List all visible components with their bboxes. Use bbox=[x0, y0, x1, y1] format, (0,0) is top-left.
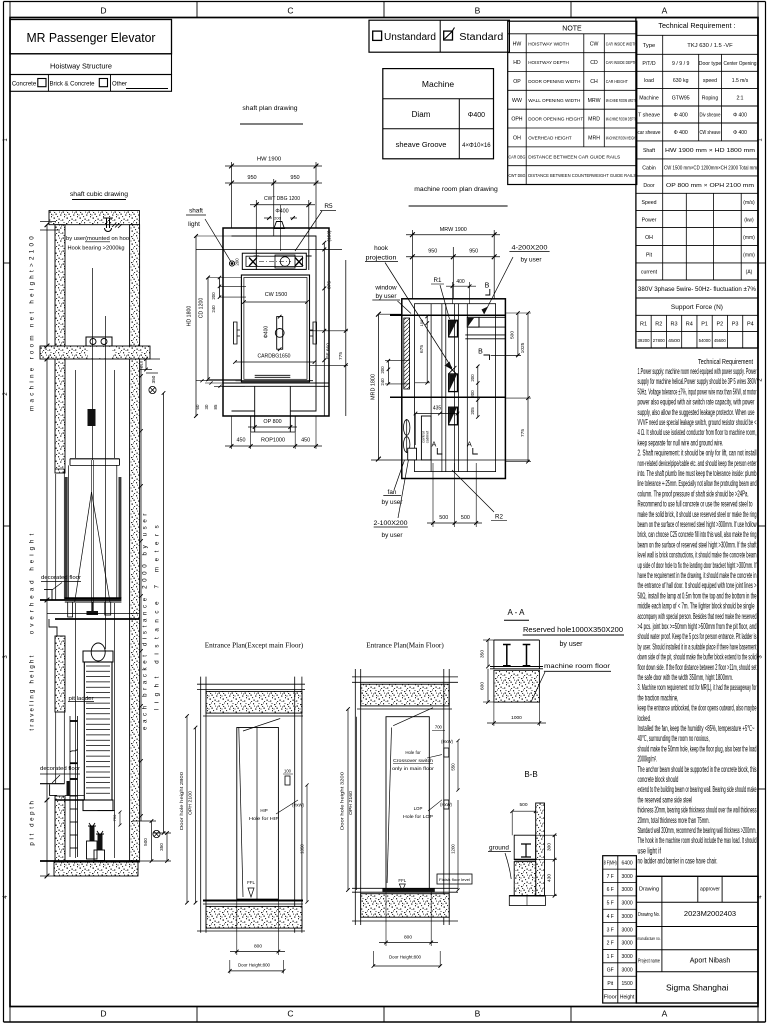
unstandard standard selection box bbox=[369, 20, 509, 52]
svg-text:MRW 1900: MRW 1900 bbox=[440, 227, 467, 233]
svg-text:A: A bbox=[662, 1009, 668, 1019]
svg-text:Drawing No.: Drawing No. bbox=[638, 912, 660, 918]
svg-text:1000: 1000 bbox=[511, 715, 522, 721]
dimension 200 200 205 bbox=[477, 366, 479, 417]
svg-text:locked.: locked. bbox=[638, 714, 652, 723]
svg-text:NOTE: NOTE bbox=[562, 26, 582, 33]
dimension 775 plan bbox=[345, 260, 347, 416]
svg-text:extend to the building beam or: extend to the building beam or bearing w… bbox=[638, 785, 757, 794]
svg-text:machine room plan drawing: machine room plan drawing bbox=[414, 186, 498, 193]
entrance1 bottom concrete bbox=[206, 906, 302, 928]
svg-text:950: 950 bbox=[469, 249, 478, 255]
svg-text:keep the entrance unblocked, t: keep the entrance unblocked, the door op… bbox=[638, 704, 757, 713]
entrance2 jamb holes bbox=[444, 748, 449, 757]
svg-text:750: 750 bbox=[112, 814, 117, 821]
svg-text:by user: by user bbox=[521, 257, 543, 264]
shaft projection lines bbox=[390, 314, 505, 316]
svg-text:Door hole height 2800: Door hole height 2800 bbox=[179, 771, 184, 830]
svg-text:Finish floor level: Finish floor level bbox=[439, 877, 470, 882]
svg-text:54000: 54000 bbox=[699, 338, 712, 343]
svg-text:TKJ 630 / 1.5 -VF: TKJ 630 / 1.5 -VF bbox=[687, 43, 733, 49]
window opening in wall bbox=[404, 318, 410, 389]
svg-text:3000: 3000 bbox=[622, 874, 633, 880]
svg-text:window: window bbox=[374, 285, 397, 292]
svg-text:shaft cubic drawing: shaft cubic drawing bbox=[70, 191, 128, 198]
svg-text:by user: by user bbox=[560, 641, 584, 648]
svg-text:by user(mounted on hook): by user(mounted on hook) bbox=[66, 236, 134, 242]
svg-text:Support Force (N): Support Force (N) bbox=[671, 304, 723, 311]
svg-text:(150): (150) bbox=[327, 230, 333, 242]
svg-text:CW: CW bbox=[590, 41, 599, 47]
floor height table bbox=[603, 856, 637, 1003]
svg-text:pit ladder: pit ladder bbox=[69, 696, 94, 702]
left wall door frame lines lower landing bbox=[55, 712, 57, 784]
svg-text:HW 1900: HW 1900 bbox=[257, 157, 281, 163]
svg-text:39200: 39200 bbox=[638, 338, 651, 343]
reserved hole 200x200 top right bbox=[467, 317, 479, 327]
svg-text:the reserved same side steel: the reserved same side steel bbox=[638, 795, 693, 804]
svg-text:6400: 6400 bbox=[622, 860, 633, 866]
svg-text:light: light bbox=[188, 221, 200, 228]
plan right dimension chain bbox=[196, 248, 342, 250]
pit ladder bbox=[69, 716, 71, 857]
BB wall bbox=[536, 803, 545, 896]
lower landing decorated floor step bbox=[50, 784, 58, 795]
top landing decorated floor step bbox=[44, 590, 65, 600]
svg-text:Door Height:800: Door Height:800 bbox=[389, 955, 422, 960]
svg-text:should make the 50mm hole, kee: should make the 50mm hole, keep the floo… bbox=[638, 744, 757, 753]
technical requirement table bbox=[636, 18, 758, 348]
svg-text:CW 1500 mm×CD 1200mm×CH 2300 T: CW 1500 mm×CD 1200mm×CH 2300 Total mm bbox=[664, 166, 757, 172]
svg-text:thickness 20mm, bearing side t: thickness 20mm, bearing side thickness s… bbox=[638, 806, 757, 815]
svg-text:1025: 1025 bbox=[520, 342, 526, 353]
car rope double line bbox=[91, 460, 93, 611]
dimension 450 ROP1000 450 bbox=[231, 416, 233, 449]
svg-text:A: A bbox=[467, 442, 472, 449]
machine room net height dimension bbox=[46, 225, 48, 346]
svg-text:floor down side. If the floor: floor down side. If the floor distance b… bbox=[638, 663, 757, 672]
svg-text:Shaft: Shaft bbox=[643, 148, 656, 154]
svg-text:R1: R1 bbox=[434, 277, 442, 284]
AA dim 600 bbox=[487, 669, 489, 702]
svg-text:CARDBG1650: CARDBG1650 bbox=[258, 354, 291, 360]
technical requirement notes text bbox=[638, 357, 757, 866]
svg-text:The anchor beam should be supp: The anchor beam should be supported in t… bbox=[638, 765, 757, 774]
svg-text:overhead height: overhead height bbox=[29, 530, 36, 634]
svg-text:GTW95: GTW95 bbox=[672, 96, 690, 102]
svg-text:4 F: 4 F bbox=[607, 914, 614, 920]
hoisting ropes bbox=[92, 268, 94, 460]
svg-text:240: 240 bbox=[380, 378, 385, 386]
svg-text:VVVF need use special leakage: VVVF need use special leakage switch, gr… bbox=[638, 418, 757, 427]
svg-text:350: 350 bbox=[159, 843, 164, 851]
svg-text:Brick & Concrete: Brick & Concrete bbox=[49, 82, 95, 88]
svg-text:Hole for HIP: Hole for HIP bbox=[249, 816, 279, 821]
entrance2 top lintel concrete bbox=[361, 684, 450, 706]
door jambs plan bbox=[254, 386, 256, 432]
hoistway structure row bbox=[10, 54, 172, 75]
rope hole 1 bbox=[449, 320, 458, 337]
svg-text:Type: Type bbox=[643, 43, 656, 49]
svg-text:800: 800 bbox=[404, 935, 412, 941]
svg-text:Door type: Door type bbox=[699, 61, 722, 67]
car sheave plan bbox=[277, 317, 283, 350]
svg-text:WW: WW bbox=[512, 98, 522, 104]
main title box MR Passenger Elevator bbox=[10, 20, 172, 54]
svg-text:240: 240 bbox=[211, 305, 216, 313]
svg-text:the entrance of hall door. It: the entrance of hall door. It should equ… bbox=[638, 581, 757, 590]
AA I-beam 1 bbox=[503, 645, 511, 666]
svg-text:Project name: Project name bbox=[638, 959, 660, 965]
svg-text:non-related device/pipe/cable: non-related device/pipe/cable etc. and s… bbox=[638, 459, 757, 468]
svg-text:EE 660: EE 660 bbox=[326, 343, 332, 359]
svg-text:current: current bbox=[641, 270, 658, 276]
svg-text:middle each lamp of < 7m. The: middle each lamp of < 7m. The lighter bl… bbox=[638, 602, 755, 611]
svg-text:CW sheave: CW sheave bbox=[700, 130, 721, 136]
dimension HD 1800 bbox=[195, 236, 197, 416]
svg-text:Hole for LOP: Hole for LOP bbox=[403, 814, 433, 819]
svg-text:A: A bbox=[432, 442, 437, 449]
dimension 350 bottom and light symbol bbox=[166, 833, 168, 861]
entrance1 sill lines bbox=[203, 900, 303, 902]
svg-text:ROP1000: ROP1000 bbox=[261, 438, 285, 444]
svg-text:accompany with special person.: accompany with special person. Besides t… bbox=[638, 612, 757, 621]
svg-text:B: B bbox=[475, 6, 481, 16]
dimension MRW 1900 bbox=[411, 230, 413, 299]
svg-text:R2: R2 bbox=[495, 514, 503, 521]
entrance1 door hole height dim bbox=[186, 716, 188, 903]
hook on slab bbox=[103, 217, 113, 219]
each bracket distance dimension bbox=[140, 365, 142, 821]
svg-text:(mm): (mm) bbox=[743, 235, 755, 241]
lower landing floor line bbox=[40, 783, 65, 785]
top landing floor line bbox=[40, 599, 121, 601]
svg-text:CWT DBG: CWT DBG bbox=[508, 173, 525, 179]
svg-text:Technical Requirement: Technical Requirement bbox=[698, 357, 754, 366]
wall duct notch bbox=[408, 448, 417, 460]
svg-text:HD 1800: HD 1800 bbox=[187, 306, 193, 327]
svg-text:675: 675 bbox=[419, 345, 425, 353]
svg-text:shaft plan drawing: shaft plan drawing bbox=[242, 105, 297, 112]
svg-text:CAR INSIDE DEPTH: CAR INSIDE DEPTH bbox=[606, 60, 637, 66]
top landing fascia step bbox=[49, 619, 57, 636]
ventilation fan symbols bbox=[404, 420, 410, 436]
svg-text:beam on the surface of reserve: beam on the surface of reserved steel hi… bbox=[638, 540, 757, 549]
svg-text:supply for machine helical.Pow: supply for machine helical.Power supply … bbox=[638, 377, 757, 386]
frame column ticks top bbox=[196, 2, 198, 18]
BB box with beam bbox=[514, 835, 536, 859]
svg-text:OVERHEAD HEIGHT: OVERHEAD HEIGHT bbox=[528, 135, 572, 141]
svg-text:875: 875 bbox=[327, 281, 333, 289]
svg-text:CAR INSIDE WIDTH: CAR INSIDE WIDTH bbox=[606, 41, 637, 47]
svg-text:sheave Groove: sheave Groove bbox=[396, 140, 447, 149]
svg-text:Φ 400: Φ 400 bbox=[674, 130, 688, 136]
svg-text:Φ400: Φ400 bbox=[468, 112, 485, 119]
svg-text:Cabin: Cabin bbox=[642, 166, 656, 172]
svg-text:Unstandard: Unstandard bbox=[384, 32, 436, 43]
counterweight bbox=[84, 662, 112, 800]
machine room inner walls bbox=[415, 304, 496, 472]
shaft left wall mid bbox=[55, 636, 65, 712]
svg-text:2:1: 2:1 bbox=[737, 96, 744, 102]
svg-text:fan: fan bbox=[388, 489, 397, 496]
svg-text:Crossover switch: Crossover switch bbox=[393, 758, 434, 763]
BB footing bbox=[509, 895, 545, 897]
svg-text:500: 500 bbox=[143, 838, 148, 846]
shaft light symbol bbox=[229, 261, 234, 266]
svg-text:R3: R3 bbox=[671, 322, 678, 328]
svg-text:Power: Power bbox=[642, 217, 657, 223]
svg-text:D: D bbox=[100, 1009, 106, 1019]
svg-text:450: 450 bbox=[301, 438, 310, 444]
svg-text:950: 950 bbox=[290, 175, 299, 181]
svg-text:350: 350 bbox=[151, 375, 156, 383]
svg-text:P/T/D: P/T/D bbox=[642, 61, 656, 67]
svg-text:Height: Height bbox=[620, 994, 635, 1000]
svg-text:Standard: Standard bbox=[459, 32, 503, 43]
svg-text:50Ω, install the lamp at 0.5m: 50Ω, install the lamp at 0.5m from the t… bbox=[638, 591, 757, 600]
svg-text:OPH: OPH bbox=[511, 117, 522, 123]
svg-text:(m/s): (m/s) bbox=[743, 200, 755, 206]
landing sill plan bbox=[236, 380, 313, 382]
rope hitch bbox=[88, 409, 96, 426]
svg-text:C: C bbox=[287, 1009, 293, 1019]
svg-text:27800: 27800 bbox=[653, 338, 666, 343]
svg-text:Φ400: Φ400 bbox=[275, 209, 288, 215]
svg-text:WALL OPENING WIDTH: WALL OPENING WIDTH bbox=[528, 98, 581, 104]
svg-text:3 F: 3 F bbox=[607, 927, 614, 933]
entrance1 door hole bbox=[237, 728, 279, 900]
svg-text:350: 350 bbox=[480, 650, 486, 658]
entrance2 jamb verticals bbox=[354, 669, 356, 925]
entrance2 bottom concrete bbox=[361, 894, 450, 918]
svg-text:MR Passenger Elevator: MR Passenger Elevator bbox=[27, 30, 157, 45]
svg-text:>4 pcs. joint box >=50mm hight: >4 pcs. joint box >=50mm hight >500mm fr… bbox=[638, 622, 757, 631]
section AA structure bbox=[493, 640, 495, 669]
dimension OP 800 bbox=[254, 416, 256, 430]
dimension 500 500 bottom bbox=[432, 463, 434, 527]
dimension 200 240 machine room bbox=[387, 361, 389, 384]
svg-text:450: 450 bbox=[237, 438, 246, 444]
svg-text:Other: Other bbox=[112, 82, 127, 88]
dimension 675 bbox=[426, 316, 428, 382]
svg-text:2-100X200: 2-100X200 bbox=[374, 520, 408, 527]
svg-text:car sheave: car sheave bbox=[638, 130, 661, 136]
svg-text:CD: CD bbox=[590, 60, 598, 66]
traction machine on floor bbox=[86, 337, 112, 346]
svg-text:Div sheave: Div sheave bbox=[700, 113, 721, 119]
svg-text:4-200X200: 4-200X200 bbox=[512, 245, 548, 252]
svg-text:MRH: MRH bbox=[588, 135, 600, 141]
svg-text:into. The shaft plumb line mus: into. The shaft plumb line must keep the… bbox=[638, 469, 757, 478]
unstandard checkbox bbox=[373, 31, 382, 40]
svg-text:630 kg: 630 kg bbox=[673, 78, 689, 84]
svg-text:1 F: 1 F bbox=[607, 954, 614, 960]
dimension 500 bottom bbox=[151, 821, 153, 861]
svg-text:300: 300 bbox=[547, 843, 553, 851]
svg-text:3000: 3000 bbox=[622, 954, 633, 960]
svg-text:column. The proof pressure of: column. The proof pressure of shaft side… bbox=[638, 489, 749, 498]
svg-text:Center Opening: Center Opening bbox=[724, 61, 757, 67]
dimension 1025 775 right bbox=[527, 313, 529, 462]
svg-text:LOP: LOP bbox=[414, 806, 423, 811]
svg-text:no ladder and barrier in case: no ladder and barrier in case have chair… bbox=[638, 857, 718, 866]
svg-text:775: 775 bbox=[338, 352, 344, 360]
svg-text:500: 500 bbox=[510, 331, 516, 339]
AA concrete block bbox=[494, 670, 540, 702]
svg-text:CAR DBG: CAR DBG bbox=[508, 154, 525, 160]
svg-text:Concrete: Concrete bbox=[12, 82, 37, 88]
svg-text:MACHINE ROOM DEPTH: MACHINE ROOM DEPTH bbox=[606, 117, 637, 123]
svg-text:CAR HEIGHT: CAR HEIGHT bbox=[606, 79, 628, 85]
svg-text:brick, can choose C25 concrete: brick, can choose C25 concrete fill into… bbox=[638, 530, 757, 539]
page frame outer border bbox=[4, 1, 766, 3]
svg-text:MRD 1800: MRD 1800 bbox=[370, 374, 376, 400]
svg-text:550: 550 bbox=[451, 763, 456, 771]
support beam lines right bbox=[465, 334, 505, 336]
svg-text:B: B bbox=[485, 283, 490, 290]
entrance2 1350 dim bbox=[457, 800, 459, 890]
svg-text:500: 500 bbox=[519, 802, 527, 808]
traveling height dimension bbox=[46, 600, 48, 800]
svg-text:make the solid brick, it shoul: make the solid brick, it should use rese… bbox=[638, 510, 757, 519]
svg-text:Door Height:800: Door Height:800 bbox=[238, 963, 271, 968]
svg-text:Recommend to use full concrete: Recommend to use full concrete or use th… bbox=[638, 500, 753, 509]
dimension CWT DBG 1200 bbox=[255, 200, 257, 253]
svg-text:Installed the fan, keep the hu: Installed the fan, keep the humidity <85… bbox=[638, 724, 755, 733]
svg-text:P4: P4 bbox=[747, 322, 754, 328]
shaft plan outer walls bbox=[223, 228, 329, 416]
svg-text:800: 800 bbox=[254, 944, 262, 950]
svg-text:435: 435 bbox=[433, 406, 442, 412]
svg-text:CD 1200: CD 1200 bbox=[199, 298, 205, 319]
svg-text:each bracket distance 2000 by: each bracket distance 2000 by user bbox=[142, 510, 149, 730]
svg-text:B-B: B-B bbox=[524, 770, 537, 779]
rope hitch under car bbox=[87, 611, 99, 615]
svg-text:Φ 400: Φ 400 bbox=[674, 113, 688, 119]
dimension 210 top bbox=[140, 358, 160, 360]
counterweight buffer bbox=[98, 834, 103, 850]
svg-text:P3: P3 bbox=[732, 322, 739, 328]
svg-text:3000: 3000 bbox=[622, 887, 633, 893]
svg-text:1500: 1500 bbox=[622, 981, 633, 987]
svg-text:power also equiped with air sw: power also equiped with air switch rate … bbox=[638, 398, 755, 407]
svg-text:only in main floor: only in main floor bbox=[392, 766, 435, 771]
counterweight assembly plan bbox=[242, 253, 306, 269]
svg-text:2000kg/m².: 2000kg/m². bbox=[638, 755, 658, 764]
svg-text:Machine: Machine bbox=[639, 96, 659, 102]
svg-text:decorated floor: decorated floor bbox=[40, 766, 80, 772]
svg-text:700: 700 bbox=[435, 725, 443, 730]
svg-text:ground: ground bbox=[489, 845, 509, 852]
left wall door frame lines upper landing bbox=[55, 474, 57, 600]
svg-text:projection: projection bbox=[366, 255, 397, 262]
svg-text:the safe door with the width 3: the safe door with the width 350mm, high… bbox=[638, 673, 734, 682]
svg-text:OH: OH bbox=[645, 235, 653, 241]
svg-text:2. Shaft requirement: it shoul: 2. Shaft requirement: it should be only … bbox=[638, 449, 757, 458]
svg-text:DISTANCE BETWEEN COUNTERWEIGHT: DISTANCE BETWEEN COUNTERWEIGHT GUIDE RAI… bbox=[528, 173, 636, 179]
svg-text:T sheave: T sheave bbox=[638, 113, 660, 119]
svg-text:380V 3phase 5wire- 50Hz- fluct: 380V 3phase 5wire- 50Hz- fluctuation ±7% bbox=[638, 287, 757, 293]
shaft right wall bbox=[130, 359, 140, 862]
svg-text:DOOR OPENING HEIGHT: DOOR OPENING HEIGHT bbox=[528, 117, 583, 123]
pit depth dimension bbox=[46, 800, 48, 876]
svg-text:pit depth: pit depth bbox=[29, 798, 36, 845]
svg-text:Entrance Plan(Main Floor): Entrance Plan(Main Floor) bbox=[366, 642, 444, 650]
elevator car bbox=[70, 458, 120, 460]
svg-text:6 F: 6 F bbox=[607, 887, 614, 893]
svg-text:3000: 3000 bbox=[622, 968, 633, 974]
svg-text:500: 500 bbox=[461, 515, 470, 521]
svg-text:speed: speed bbox=[703, 78, 717, 84]
hoistway structure checkbox row bbox=[10, 75, 172, 92]
svg-text:Machine: Machine bbox=[422, 79, 454, 89]
shaft plan inner walls bbox=[232, 236, 317, 411]
dimension 400 beams bbox=[451, 282, 453, 304]
dimension MRD 1800 bbox=[377, 314, 379, 459]
svg-text:CW 1500: CW 1500 bbox=[265, 292, 287, 298]
svg-text:OP: OP bbox=[513, 79, 521, 85]
svg-text:by user. Should installed it i: by user. Should installed it in a suitab… bbox=[638, 642, 757, 651]
svg-text:keep separate for null wire an: keep separate for null wire and ground w… bbox=[638, 438, 724, 447]
svg-text:FFL: FFL bbox=[247, 880, 255, 885]
svg-text:Hole for: Hole for bbox=[405, 750, 421, 755]
machine beams bbox=[430, 304, 432, 472]
entrance2 550 dim bbox=[457, 741, 459, 791]
svg-text:A - A: A - A bbox=[508, 608, 526, 617]
frame row ticks right bbox=[758, 262, 766, 264]
svg-text:P1: P1 bbox=[701, 322, 708, 328]
svg-text:(HxW): (HxW) bbox=[440, 802, 452, 807]
frame row ticks left bbox=[4, 262, 11, 264]
svg-text:The hook in the machine room s: The hook in the machine room should incl… bbox=[638, 836, 757, 845]
svg-text:shaft: shaft bbox=[189, 208, 203, 215]
entrance2 finish floor level box bbox=[437, 874, 472, 884]
svg-text:3000: 3000 bbox=[622, 914, 633, 920]
svg-text:4 Ω. It should use isolated co: 4 Ω. It should use isolated conductor fr… bbox=[638, 428, 757, 437]
svg-text:3000: 3000 bbox=[622, 941, 633, 947]
svg-text:3000: 3000 bbox=[622, 901, 633, 907]
svg-text:400: 400 bbox=[456, 279, 465, 285]
svg-text:OP 800: OP 800 bbox=[263, 419, 281, 425]
svg-text:4×Φ10×16: 4×Φ10×16 bbox=[462, 143, 491, 149]
svg-text:should water proof. Keep the 5: should water proof. Keep the 5 pcs for p… bbox=[638, 632, 757, 641]
svg-text:manufacture no.: manufacture no. bbox=[638, 936, 661, 941]
svg-text:Pit: Pit bbox=[646, 252, 653, 258]
shaft left wall upper bbox=[55, 359, 65, 473]
svg-text:beam on the surface of reserve: beam on the surface of reserved steel hi… bbox=[638, 520, 757, 529]
svg-text:Pit: Pit bbox=[607, 981, 613, 987]
drawing title block bbox=[636, 876, 758, 1003]
svg-text:HOISTWAY DEPTH: HOISTWAY DEPTH bbox=[528, 60, 569, 66]
BB concrete block bbox=[514, 862, 536, 896]
AA dim 350 bbox=[487, 640, 489, 667]
svg-text:30: 30 bbox=[204, 404, 209, 409]
svg-text:(mm): (mm) bbox=[743, 252, 755, 258]
svg-text:cabinet: cabinet bbox=[425, 430, 430, 443]
svg-text:machine room floor: machine room floor bbox=[544, 663, 611, 670]
svg-text:OP 800 mm × OPH 2100: OP 800 mm × OPH 2100 mm bbox=[666, 183, 754, 189]
machine room floor slab bbox=[40, 346, 150, 359]
counterweight sheave bbox=[91, 643, 105, 661]
svg-text:100: 100 bbox=[284, 769, 292, 774]
svg-text:supply, also allow the suggest: supply, also allow the suggested leakage… bbox=[638, 408, 755, 417]
machine table bbox=[383, 69, 494, 159]
svg-text:(HxW): (HxW) bbox=[441, 739, 453, 744]
svg-text:2 F: 2 F bbox=[607, 941, 614, 947]
svg-text:50Hz. Voltage tolerance ±7%, i: 50Hz. Voltage tolerance ±7%, input power… bbox=[638, 387, 757, 396]
svg-text:4500: 4500 bbox=[668, 338, 681, 343]
